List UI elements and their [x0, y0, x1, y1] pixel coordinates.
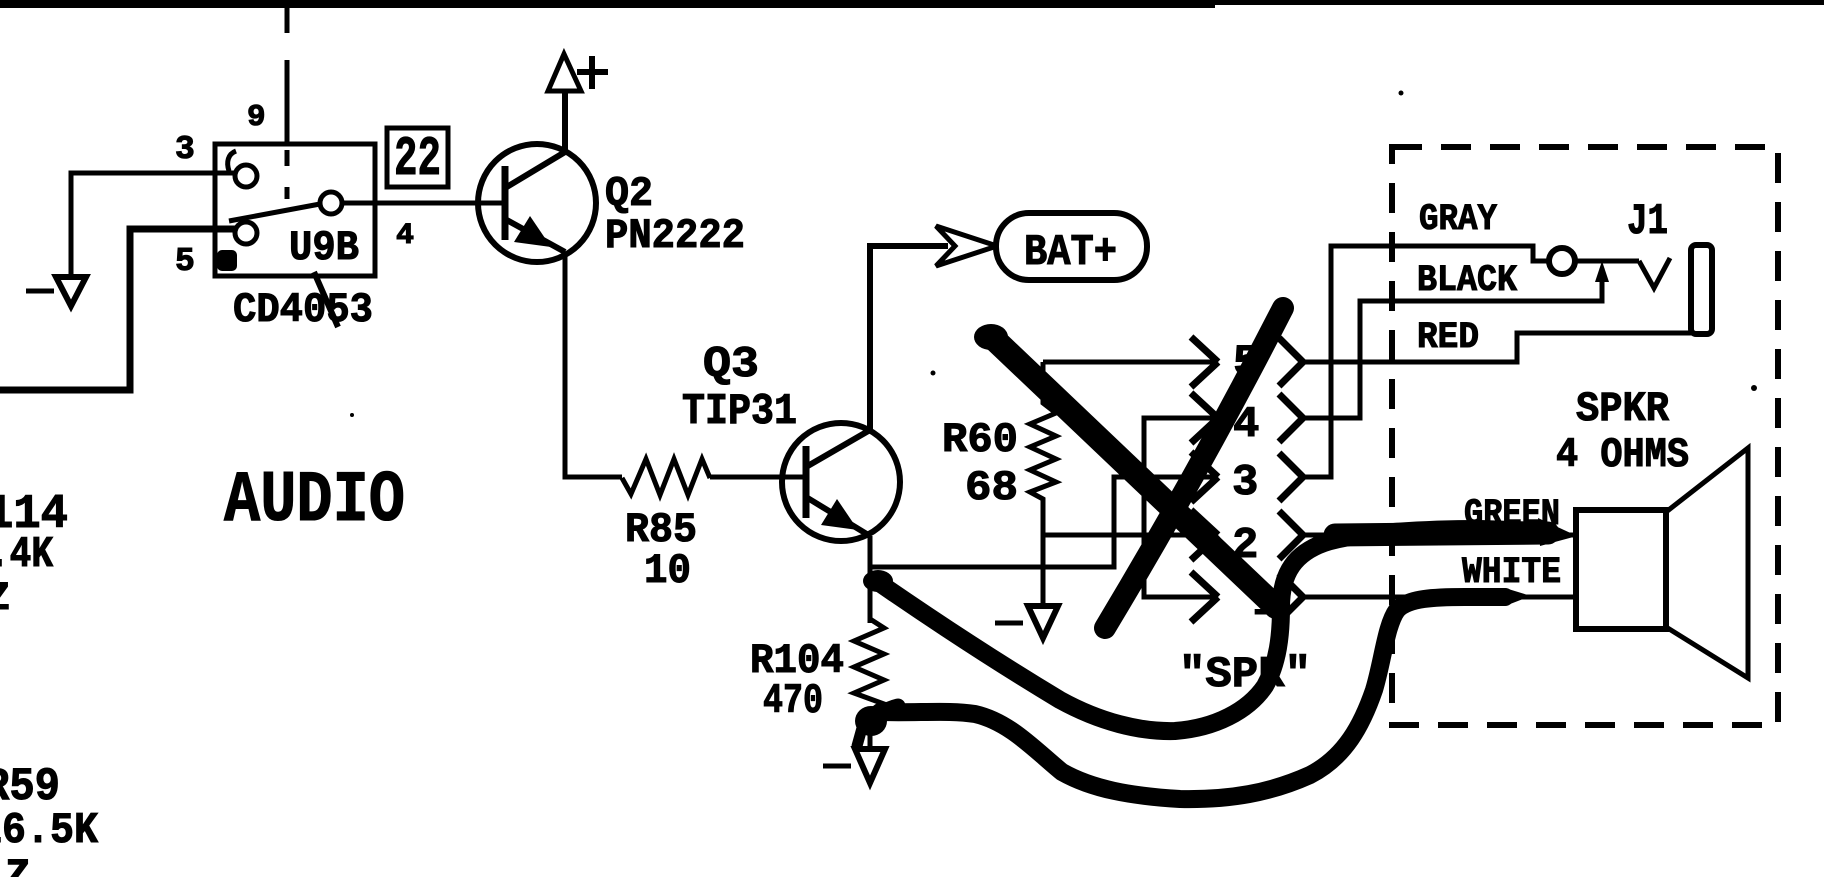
resistor R104 — [854, 619, 884, 748]
wire R85 to Q3 base — [710, 475, 806, 480]
svg-text:Q2: Q2 — [605, 170, 653, 218]
U9B control dashed line — [285, 150, 290, 199]
marker stroke X slash — [992, 337, 1276, 607]
U9B pin 6 smudge blob — [217, 250, 237, 271]
svg-text:TIP31: TIP31 — [682, 387, 797, 437]
U9B pin 3 inner hook — [228, 151, 236, 171]
svg-text:22: 22 — [394, 127, 441, 191]
connector mate pin 5 arrow — [1279, 338, 1303, 386]
resistor R85 — [622, 459, 710, 495]
transistor Q3 — [782, 246, 948, 541]
svg-text:AUDIO: AUDIO — [224, 460, 405, 542]
jack J1 plug bar — [1691, 245, 1712, 334]
svg-text:J1: J1 — [1627, 197, 1668, 247]
connector mate pin 4 arrow — [1279, 394, 1303, 442]
speck dots — [350, 91, 1757, 418]
connector SPK pin 1 arrow — [1191, 572, 1218, 622]
connector SPK pin 3 arrow — [1191, 452, 1218, 502]
speaker body — [1576, 510, 1666, 629]
wire R60 top to pin 5 of SPK — [1043, 360, 1215, 365]
svg-text:3: 3 — [1232, 458, 1258, 508]
stray pen mark through CD4053 — [314, 272, 338, 327]
BAT+ net oval — [996, 213, 1147, 280]
jack tip spring V — [1639, 258, 1670, 288]
BAT+ arrow — [936, 226, 997, 266]
wire into pin 3 — [71, 173, 235, 276]
wire pin2 to speaker green — [1303, 533, 1576, 538]
svg-text:10: 10 — [644, 547, 691, 595]
marker blob slash start — [974, 324, 1008, 350]
wire top bus bar — [0, 0, 1824, 8]
svg-text:470: 470 — [763, 677, 823, 725]
ground left — [26, 277, 86, 306]
connector mate pin 3 arrow — [1279, 453, 1303, 501]
wire RED pin5 to jack — [1303, 333, 1692, 362]
U9B switch lever — [229, 204, 320, 221]
connector mate pin 2 arrow — [1279, 511, 1303, 559]
svg-text:68: 68 — [965, 464, 1018, 512]
svg-text:SPKR: SPKR — [1576, 385, 1670, 433]
connector SPK pin 2 arrow — [1191, 510, 1218, 560]
svg-text:5: 5 — [175, 243, 195, 280]
svg-text:RED: RED — [1417, 317, 1479, 359]
svg-text:4: 4 — [396, 219, 414, 253]
svg-text:Z: Z — [5, 852, 30, 877]
svg-text:WHITE: WHITE — [1462, 552, 1561, 594]
wire pin1 to speaker white — [1303, 595, 1576, 600]
U9B switch pole circle — [320, 192, 342, 214]
wire emitter to pin 3 of SPK — [870, 477, 1215, 567]
marker stroke X backslash — [1105, 308, 1283, 628]
marker white taper — [1505, 588, 1531, 606]
wire pin 9 control drop — [285, 5, 290, 144]
dashed enclosure box — [1392, 147, 1778, 725]
wire BLACK pin4 to jack — [1303, 268, 1602, 418]
marker green wire — [875, 529, 1545, 731]
wire R60 bottom to pin 2 of SPK — [1043, 533, 1215, 538]
svg-text:Q3: Q3 — [703, 340, 759, 390]
wire Q2 emitter to R85 — [565, 252, 622, 477]
resistor R60 — [1030, 362, 1056, 604]
marker white start hook — [868, 706, 898, 724]
U9B pin 5 contact circle — [235, 222, 257, 244]
marker green taper — [1538, 518, 1577, 546]
wire jumper pin 4 to pin 1 — [1144, 418, 1215, 597]
svg-text:BAT+: BAT+ — [1024, 228, 1117, 278]
connector SPK pin 5 arrow — [1191, 337, 1218, 387]
svg-text:16.5K: 16.5K — [0, 806, 99, 856]
svg-text:"SPK": "SPK" — [1179, 650, 1311, 700]
svg-text:BLACK: BLACK — [1417, 260, 1518, 302]
connector SPK pin 4 arrow — [1191, 393, 1218, 443]
svg-text:CD4053: CD4053 — [233, 286, 373, 334]
U9B pin 3 contact circle — [235, 165, 257, 187]
marker white start blob — [855, 706, 887, 736]
svg-text:R60: R60 — [942, 416, 1018, 464]
jack contact circle — [1549, 248, 1575, 274]
marker green start blob — [863, 570, 893, 592]
ground below R104 — [823, 749, 885, 783]
svg-text:Z: Z — [0, 577, 10, 622]
transistor Q2 — [478, 91, 596, 262]
wire switch pole to Q2 base — [342, 201, 505, 206]
power +V arrow — [548, 54, 608, 91]
svg-text:PN2222: PN2222 — [605, 212, 745, 260]
U9B analog switch CD4053 box — [215, 144, 375, 276]
connector mate pin 1 arrow — [1279, 573, 1303, 621]
svg-text:GRAY: GRAY — [1419, 199, 1498, 241]
wire GRAY pin3 to jack contact — [1303, 246, 1550, 477]
svg-text:3: 3 — [175, 131, 195, 168]
svg-text:U9B: U9B — [289, 224, 359, 272]
svg-text:4 OHMS: 4 OHMS — [1556, 431, 1689, 479]
jack tip contact wire — [1574, 259, 1639, 264]
svg-text:.4K: .4K — [0, 530, 53, 580]
speaker cone — [1666, 448, 1748, 678]
BLACK wire arrowhead — [1595, 261, 1609, 282]
svg-text:9: 9 — [247, 100, 266, 135]
marker white wire — [880, 597, 1505, 799]
net label box 22 — [387, 127, 448, 191]
ground below R60 — [995, 606, 1058, 638]
marker green band — [1335, 533, 1548, 535]
wire into pin 5 — [0, 229, 235, 390]
wire Q3 emitter node — [868, 536, 873, 623]
